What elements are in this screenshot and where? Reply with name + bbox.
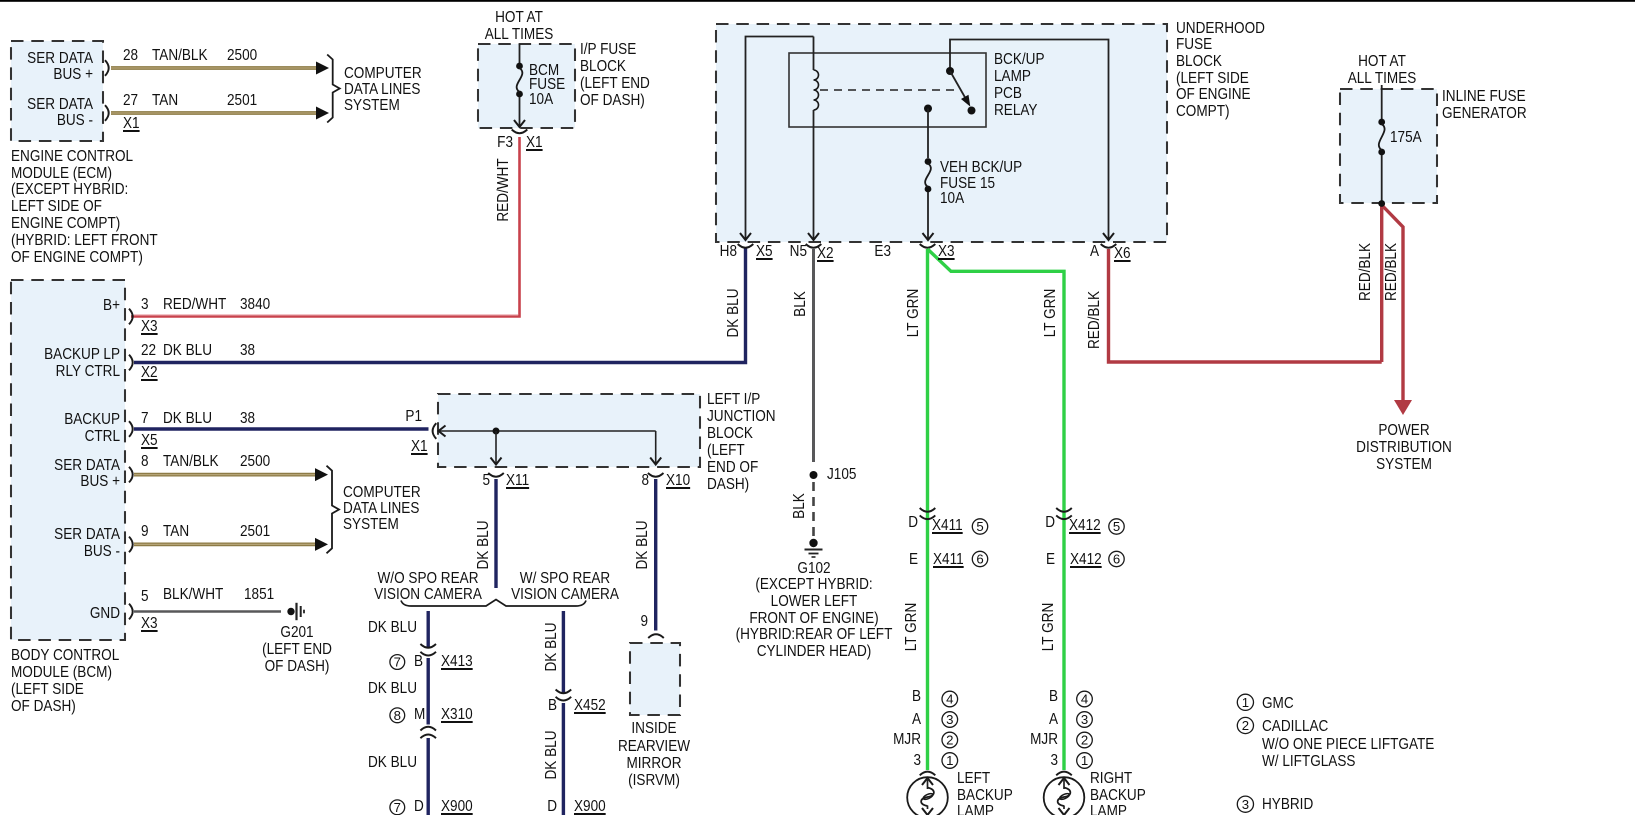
svg-text:1: 1 [946, 753, 953, 768]
svg-text:1: 1 [1242, 695, 1249, 710]
svg-text:3: 3 [1081, 712, 1088, 727]
svg-text:8: 8 [394, 708, 401, 723]
svg-text:7: 7 [394, 800, 401, 815]
svg-text:3: 3 [946, 712, 953, 727]
svg-text:4: 4 [946, 692, 953, 707]
svg-text:3: 3 [1242, 797, 1249, 812]
svg-text:2: 2 [1081, 733, 1088, 748]
svg-text:5: 5 [1113, 519, 1120, 534]
svg-text:6: 6 [976, 552, 983, 567]
svg-text:6: 6 [1113, 552, 1120, 567]
svg-text:5: 5 [976, 519, 983, 534]
svg-text:2: 2 [946, 733, 953, 748]
svg-text:2: 2 [1242, 718, 1249, 733]
svg-text:4: 4 [1081, 692, 1088, 707]
svg-text:1: 1 [1081, 753, 1088, 768]
